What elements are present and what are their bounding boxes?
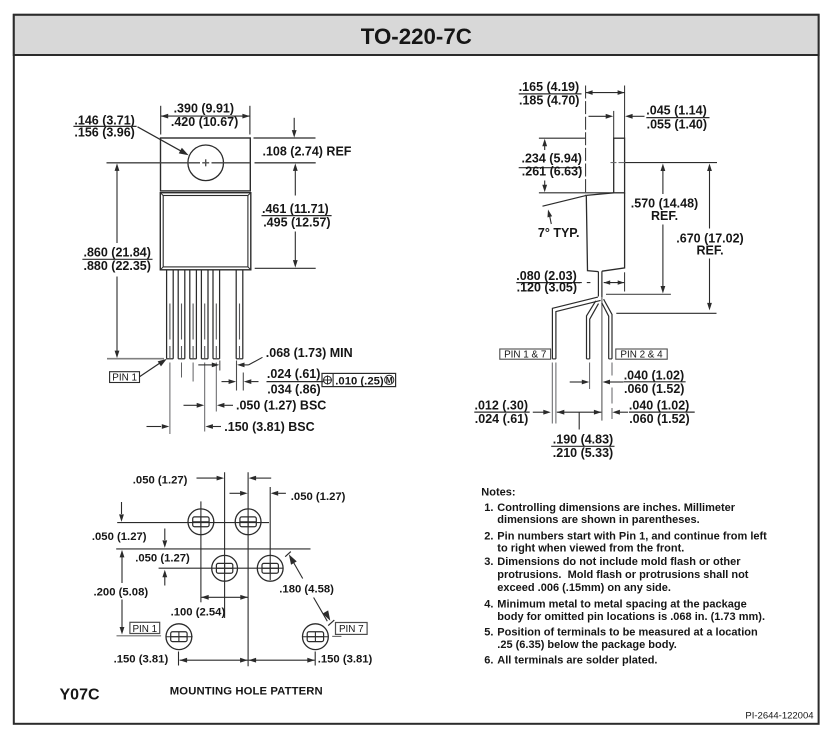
dim .860/.880 overall height (82, 163, 152, 358)
dim .040/.060 inner pin thickness (612, 399, 694, 426)
front view tab outline (161, 138, 251, 191)
svg-text:.012 (.30): .012 (.30) (475, 399, 529, 413)
dim .670 REF (616, 164, 743, 314)
dim .068 MIN omitted pin gap (198, 346, 352, 390)
svg-text:.150 (3.81): .150 (3.81) (114, 653, 169, 665)
svg-text:Dimensions do not include mold: Dimensions do not include mold flash or … (497, 556, 741, 568)
svg-text:Pin numbers start with Pin 1,: Pin numbers start with Pin 1, and contin… (497, 530, 767, 542)
svg-text:.190 (4.83): .190 (4.83) (553, 433, 613, 447)
svg-text:.024 (.61): .024 (.61) (267, 367, 321, 381)
svg-text:.050 (1.27): .050 (1.27) (133, 475, 188, 487)
svg-text:5.: 5. (484, 627, 493, 639)
svg-text:.060 (1.52): .060 (1.52) (629, 412, 689, 426)
svg-text:.180 (4.58): .180 (4.58) (279, 584, 334, 596)
svg-text:REF.: REF. (651, 209, 678, 223)
7 degree TYP label (538, 210, 580, 241)
svg-text:.050 (1.27): .050 (1.27) (135, 552, 190, 564)
svg-text:PIN 1 & 7: PIN 1 & 7 (504, 350, 546, 361)
svg-text:.010 (.25): .010 (.25) (335, 375, 384, 387)
mounting hole circle PIN 1 (166, 624, 193, 666)
svg-text:.261 (6.63): .261 (6.63) (522, 165, 582, 179)
mounting hole circle PIN 7 (303, 624, 329, 666)
7 degree draft line (543, 195, 587, 206)
mounting pattern construction lines (116, 472, 310, 666)
svg-text:.234 (5.94): .234 (5.94) (522, 152, 582, 166)
svg-text:.040 (1.02): .040 (1.02) (629, 399, 689, 413)
side view outer pin PIN 1 and 7 (552, 297, 600, 359)
dim .100 (171, 595, 248, 619)
straight center pin line (601, 297, 603, 421)
PIN 1 label (110, 359, 167, 384)
svg-text:.150 (3.81): .150 (3.81) (318, 653, 373, 665)
dim .390/.420 tab width (161, 102, 250, 135)
svg-text:MOUNTING HOLE PATTERN: MOUNTING HOLE PATTERN (170, 686, 323, 698)
caption MOUNTING HOLE PATTERN (170, 686, 323, 698)
svg-text:.200 (5.08): .200 (5.08) (94, 586, 149, 598)
dim .024/.034 pin width (222, 367, 324, 397)
mounting hole circle mid-left (212, 555, 238, 581)
dim .040/.060 row spacing (570, 369, 686, 396)
svg-text:REF.: REF. (696, 244, 723, 258)
svg-text:protrusions. Mold flash or pr: protrusions. Mold flash or protrusions s… (497, 569, 749, 581)
svg-text:1.: 1. (484, 502, 493, 514)
svg-text:exceed .006 (.15mm) on any sid: exceed .006 (.15mm) on any side. (497, 582, 671, 594)
svg-text:.055 (1.40): .055 (1.40) (647, 117, 707, 131)
dim .461/.495 body height (255, 163, 332, 268)
svg-text:.034 (.86): .034 (.86) (267, 383, 321, 397)
front view body outline (160, 193, 251, 270)
svg-text:7° TYP.: 7° TYP. (538, 226, 580, 240)
dim .045/.055 tab thickness (589, 103, 710, 138)
svg-text:.495 (12.57): .495 (12.57) (263, 215, 330, 229)
svg-text:.040 (1.02): .040 (1.02) (624, 369, 684, 383)
side view pin stem (598, 271, 602, 297)
side view body outline (586, 193, 624, 272)
dim .080/.120 stem width (516, 269, 624, 295)
position tolerance frame .010 M (322, 373, 396, 387)
svg-text:All terminals are solder plate: All terminals are solder plated. (497, 655, 657, 667)
dim .150 bottom-right (249, 653, 373, 665)
svg-text:.050 (1.27): .050 (1.27) (291, 491, 346, 503)
svg-text:PI-2644-122004: PI-2644-122004 (745, 711, 813, 722)
svg-text:.461 (11.71): .461 (11.71) (262, 202, 329, 216)
svg-text:PIN 2 & 4: PIN 2 & 4 (620, 350, 663, 361)
dim .146/.156 hole diameter (73, 114, 188, 156)
front view mounting hole (188, 145, 224, 181)
svg-text:.120 (3.05): .120 (3.05) (517, 281, 577, 295)
svg-text:Position of terminals to be me: Position of terminals to be measured at … (497, 627, 758, 639)
svg-text:.050 (1.27): .050 (1.27) (92, 531, 147, 543)
svg-text:PIN 1: PIN 1 (112, 373, 137, 384)
dim .190/.210 row pitch (551, 410, 614, 460)
package code Y07C (60, 687, 100, 704)
dim .180 diagonal (279, 552, 334, 626)
PIN 2 and 4 label (616, 349, 667, 361)
dim .050 left lower (135, 529, 190, 586)
svg-text:dimensions are shown in parent: dimensions are shown in parentheses. (497, 514, 699, 526)
svg-text:.165 (4.19): .165 (4.19) (519, 80, 579, 94)
dim .234/.261 tab height (519, 138, 614, 193)
svg-text:.880 (22.35): .880 (22.35) (84, 259, 151, 273)
notes text (481, 486, 767, 666)
svg-text:.860 (21.84): .860 (21.84) (84, 245, 151, 259)
svg-text:.060 (1.52): .060 (1.52) (624, 382, 684, 396)
svg-text:6.: 6. (484, 655, 493, 667)
pin center extension lines (170, 363, 216, 435)
svg-text:.150 (3.81) BSC: .150 (3.81) BSC (224, 420, 314, 434)
side view middle pin (587, 301, 599, 359)
svg-text:4.: 4. (484, 599, 493, 611)
svg-text:Controlling dimensions are inc: Controlling dimensions are inches. Milli… (497, 502, 735, 514)
side tab hole centerline (611, 162, 718, 164)
pins bottom reference line (107, 358, 164, 360)
svg-text:.050 (1.27) BSC: .050 (1.27) BSC (236, 399, 326, 413)
svg-text:.25 (6.35) below the package b: .25 (6.35) below the package body. (497, 639, 677, 651)
document number PI-2644-122004 (745, 711, 813, 722)
svg-text:.108 (2.74) REF: .108 (2.74) REF (263, 144, 352, 158)
svg-text:.156 (3.96): .156 (3.96) (74, 126, 134, 140)
front view pins 1-5 and 7 (167, 270, 243, 359)
side view inner pin PIN 2 and 4 (602, 299, 612, 359)
dim .012/.024 outer pin thickness (474, 399, 551, 426)
PIN 7 pattern label (332, 623, 367, 637)
svg-text:PIN 1: PIN 1 (132, 624, 157, 635)
PIN 1 pattern label (117, 622, 162, 636)
dim .150 BSC (147, 420, 315, 434)
svg-text:to right when viewed from the: to right when viewed from the front. (497, 543, 684, 555)
svg-text:2.: 2. (484, 530, 493, 542)
PIN 1 and 7 label (500, 349, 551, 361)
title bar TO-220-7C (14, 15, 819, 55)
svg-text:PIN 7: PIN 7 (339, 624, 364, 635)
svg-text:.210 (5.33): .210 (5.33) (553, 446, 613, 460)
svg-text:.390 (9.91): .390 (9.91) (174, 102, 234, 116)
mounting hole circle mid-right (257, 555, 283, 581)
dim .200 (94, 550, 149, 635)
dim .050 left upper (92, 502, 147, 543)
dim .150 bottom-left (114, 653, 248, 665)
side pin extension lines (552, 363, 612, 424)
dim .050 BSC pin pitch (184, 399, 327, 413)
dim .108 REF (254, 118, 352, 159)
svg-text:.420 (10.67): .420 (10.67) (171, 115, 238, 129)
svg-text:Minimum metal to metal spacing: Minimum metal to metal spacing at the pa… (497, 599, 746, 611)
svg-text:M: M (386, 375, 393, 385)
dim .050 top-left (133, 475, 271, 487)
dim .050 top-right (230, 491, 346, 503)
svg-text:.100 (2.54): .100 (2.54) (171, 607, 226, 619)
svg-text:.024 (.61): .024 (.61) (475, 412, 529, 426)
mounting hole circle top-left (188, 509, 214, 535)
dim .165/.185 body depth (519, 80, 625, 195)
dim .570 REF (606, 164, 698, 295)
svg-text:3.: 3. (484, 556, 493, 568)
hole centerline (107, 162, 316, 164)
svg-text:Notes:: Notes: (481, 486, 515, 498)
svg-text:Y07C: Y07C (60, 687, 100, 704)
hole center mark (202, 159, 209, 166)
svg-text:TO-220-7C: TO-220-7C (361, 24, 472, 49)
side view tab outline (614, 138, 625, 193)
svg-text:.045 (1.14): .045 (1.14) (646, 103, 706, 117)
mounting hole circle top-right (235, 509, 261, 535)
svg-text:.185 (4.70): .185 (4.70) (519, 94, 579, 108)
svg-text:.068 (1.73) MIN: .068 (1.73) MIN (266, 346, 353, 360)
svg-text:body for omitted pin locations: body for omitted pin locations is .068 i… (497, 611, 765, 623)
